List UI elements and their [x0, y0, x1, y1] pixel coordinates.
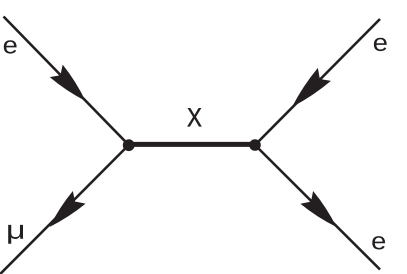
arrow on bottom-right line (points outward)	[300, 191, 342, 233]
node: right vertex dot	[249, 139, 261, 151]
wire: X boson propagator (horizontal)	[129, 142, 255, 147]
wire: incoming electron line (top-right)	[255, 19, 380, 145]
arrow on bottom-left line (points outward)	[43, 191, 85, 233]
label X-propagator	[188, 108, 202, 126]
arrow on top-left line (points toward vertex)	[50, 65, 92, 108]
arrow on top-right line (points toward vertex)	[285, 68, 330, 114]
label mu-bottom-left	[8, 225, 23, 244]
wire: outgoing muon line (bottom-left)	[0, 145, 129, 274]
label e-bottom-right	[372, 236, 385, 249]
node: left vertex dot	[123, 139, 135, 151]
label e-top-left	[4, 40, 17, 53]
wire: incoming electron line (top-left)	[4, 17, 129, 146]
wire: outgoing electron line (bottom-right)	[255, 145, 380, 270]
label e-top-right	[374, 38, 387, 51]
